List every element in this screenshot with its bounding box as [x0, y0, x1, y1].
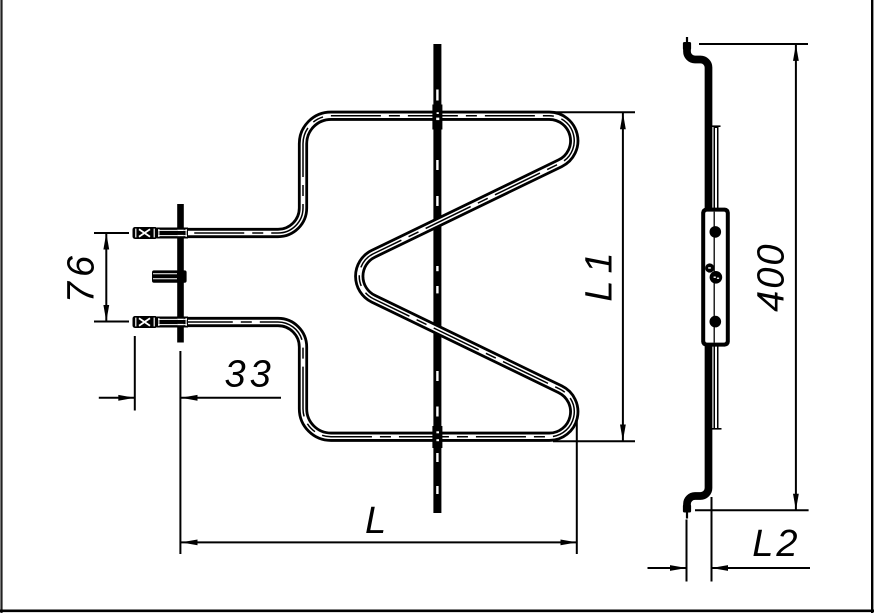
svg-text:L1: L1: [579, 245, 621, 301]
svg-text:76: 76: [61, 251, 103, 303]
svg-text:L: L: [365, 500, 386, 542]
svg-text:400: 400: [750, 242, 792, 311]
svg-text:L2: L2: [752, 523, 800, 565]
svg-text:33: 33: [224, 354, 274, 396]
